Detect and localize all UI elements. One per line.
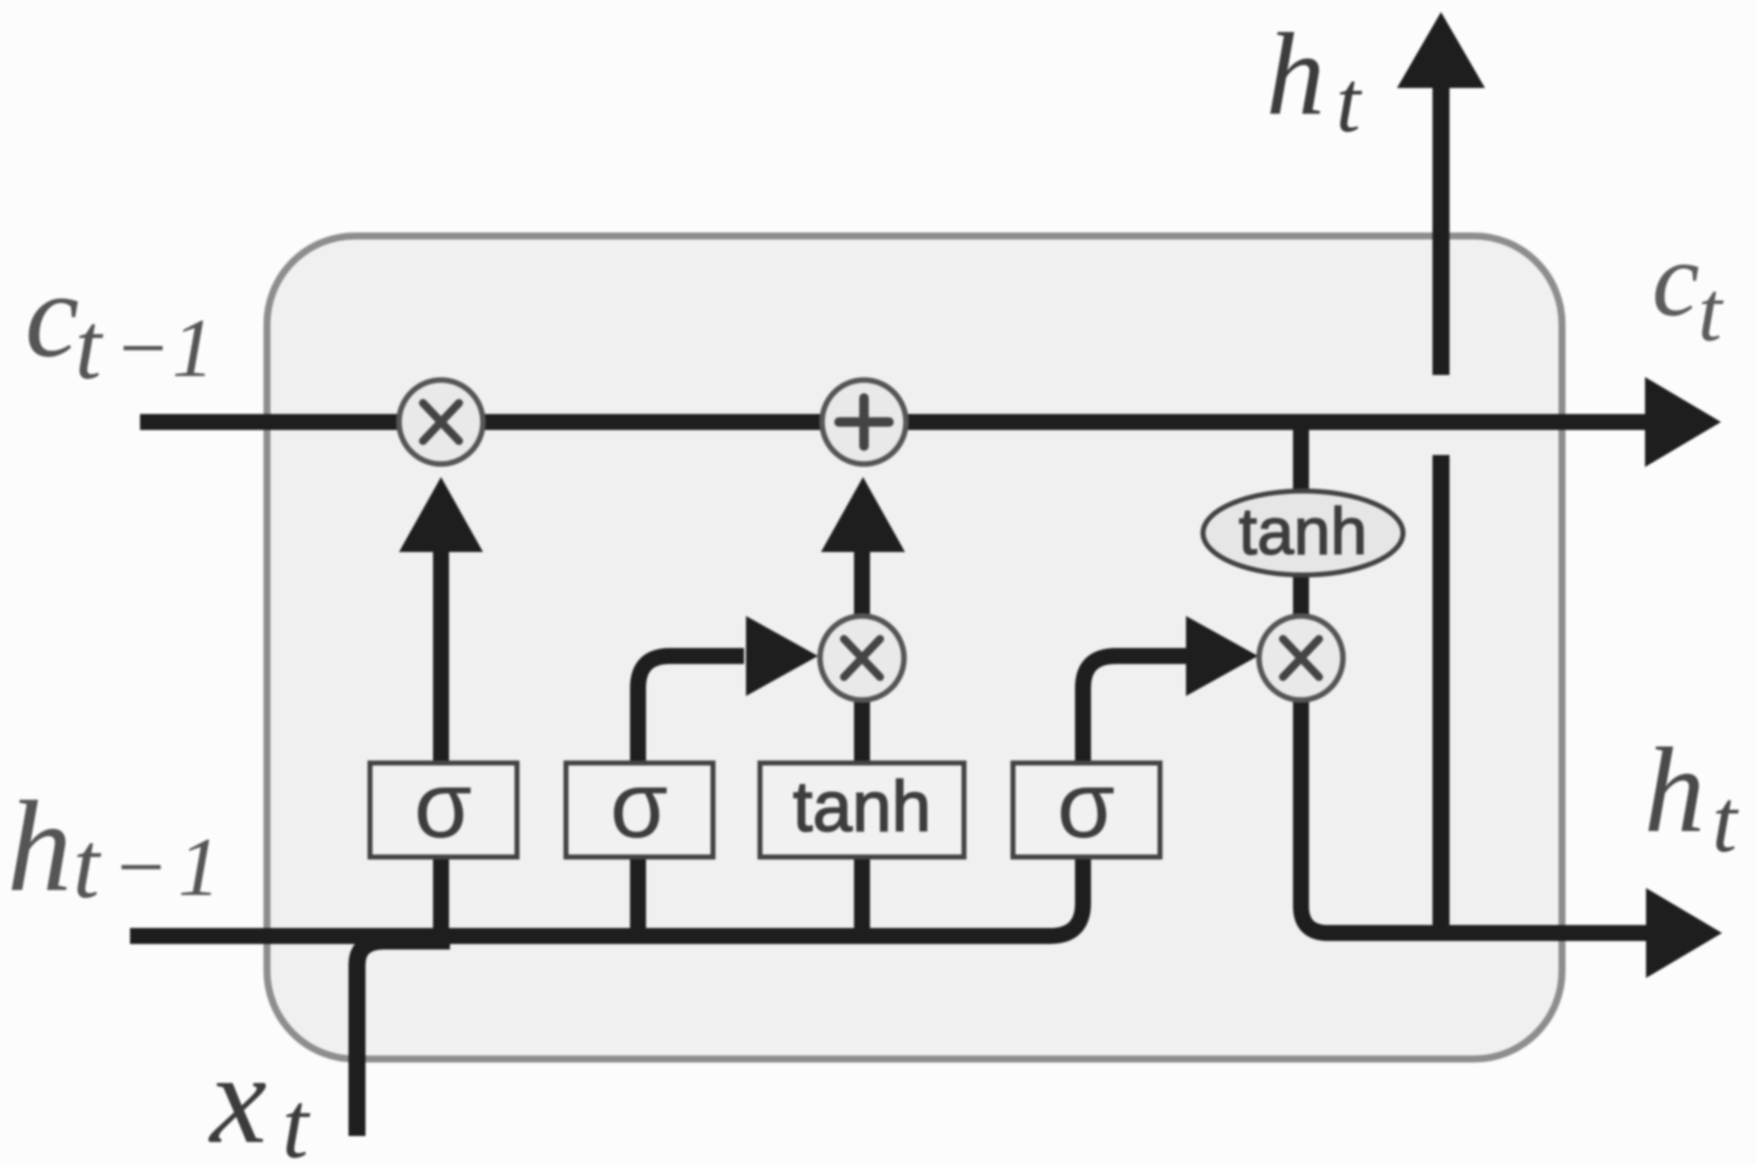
- svg-text:c: c: [1652, 221, 1700, 339]
- gate sigma3 box: [1013, 763, 1160, 857]
- svg-text:σ: σ: [1057, 752, 1115, 857]
- svg-text:t: t: [75, 293, 104, 399]
- arrowhead into add op: [821, 477, 905, 552]
- svg-text:σ: σ: [610, 752, 668, 857]
- svg-text:t: t: [282, 1072, 311, 1164]
- gate sigma1 box: [370, 763, 517, 857]
- wire h_t up output lower segment: [1433, 455, 1450, 933]
- gate tanh box: [760, 763, 964, 857]
- wire h input (h_t-1): [130, 656, 1190, 936]
- svg-text:c: c: [25, 248, 79, 383]
- svg-text:1: 1: [178, 821, 220, 914]
- wire c branch through tanh ellipse and multiply X3 to h_t right output: [1301, 422, 1648, 933]
- label c_t-1: [25, 248, 214, 399]
- wire h_t up output upper segment: [1433, 86, 1450, 375]
- arrowhead into multiply op X3: [1186, 616, 1258, 696]
- label x_t: [208, 1028, 311, 1164]
- svg-text:tanh: tanh: [1239, 494, 1367, 568]
- svg-text:tanh: tanh: [793, 768, 931, 847]
- svg-text:x: x: [208, 1028, 267, 1164]
- svg-text:t: t: [1698, 263, 1724, 359]
- multiply op X1 on c line: [399, 380, 483, 464]
- arrowhead into X2: [746, 616, 818, 696]
- svg-text:−: −: [112, 821, 169, 914]
- arrowhead h_t right: [1646, 888, 1722, 978]
- arrowhead c_t: [1645, 377, 1721, 467]
- label h_t top: [1266, 9, 1363, 151]
- svg-text:h: h: [7, 775, 72, 919]
- wire candidate tanh gate to add op: [854, 549, 870, 936]
- multiply op X3: [1259, 616, 1343, 700]
- cell body: [267, 236, 1562, 1059]
- svg-text:t: t: [1712, 772, 1739, 871]
- tanh ellipse: [1203, 491, 1403, 575]
- label c_t right: [1652, 221, 1724, 359]
- svg-text:h: h: [1644, 723, 1705, 858]
- svg-text:σ: σ: [414, 752, 472, 857]
- wire c line (c_t-1 to c_t): [140, 414, 1648, 430]
- svg-text:−: −: [114, 302, 171, 395]
- gate sigma2 box: [566, 763, 713, 857]
- arrowhead h_t top: [1397, 12, 1485, 88]
- svg-text:t: t: [1336, 54, 1363, 151]
- label h_t right: [1644, 723, 1739, 871]
- wire forget gate sigma1 to multiply op X1: [433, 549, 449, 936]
- label h_t-1: [7, 775, 220, 919]
- svg-text:1: 1: [172, 302, 214, 395]
- multiply op X2: [820, 616, 904, 700]
- svg-text:h: h: [1266, 9, 1325, 140]
- wire x_t input: [357, 941, 450, 1136]
- wire input gate sigma2 to multiply op X2: [638, 656, 744, 936]
- add op on c line: [822, 380, 906, 464]
- svg-text:t: t: [73, 812, 102, 918]
- arrowhead into X1: [399, 477, 483, 552]
